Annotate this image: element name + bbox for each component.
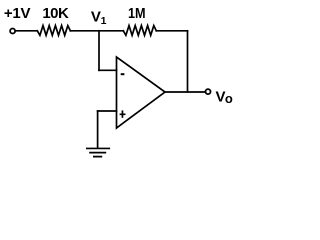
svg-text:V: V bbox=[91, 8, 101, 25]
svg-text:+1V: +1V bbox=[4, 5, 31, 22]
svg-text:10K: 10K bbox=[42, 5, 69, 22]
svg-text:1: 1 bbox=[101, 15, 107, 27]
svg-text:1M: 1M bbox=[128, 5, 146, 22]
svg-text:o: o bbox=[225, 91, 233, 106]
